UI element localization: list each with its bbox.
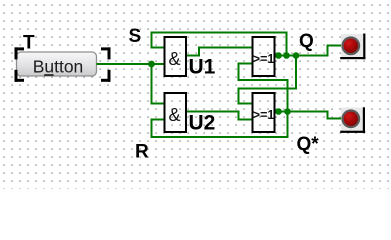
wire S net horizontal top: [151, 32, 288, 34]
wire U1 output jog up: [198, 47, 200, 57]
wire S net vertical right down to Q row: [286, 32, 288, 57]
and-gate U1: [165, 37, 216, 79]
wire S net into U1 upper input: [152, 47, 165, 49]
wire into OR1 lower input: [238, 63, 253, 65]
wire Q into LED1: [328, 45, 342, 47]
svg-text:S: S: [129, 26, 142, 47]
wire bottom rail R: [151, 136, 289, 138]
wire OR2 output Q* row: [275, 111, 329, 113]
selection marks around button: [15, 47, 111, 81]
junction Q* row feedback tap: [284, 108, 291, 115]
junction Q row feedback tap: [293, 52, 300, 59]
wire into OR2 upper input: [238, 103, 253, 105]
svg-text:U1: U1: [189, 56, 216, 79]
wire OR1 output Q row: [275, 55, 329, 57]
input button T: [17, 52, 97, 77]
junction Q row S tap: [283, 52, 290, 59]
junction Q* row pin: [275, 108, 282, 115]
svg-text:>=1: >=1: [253, 108, 275, 122]
svg-text:&: &: [168, 49, 180, 69]
svg-text:Q*: Q*: [297, 134, 320, 155]
wire Q feedback down to OR2 upper input: [238, 88, 240, 105]
svg-text:U2: U2: [189, 112, 216, 135]
wire bottom rail up to U2 lower input: [151, 119, 153, 139]
wire U1 output: [186, 55, 200, 57]
wire button to U1 lower input: [97, 63, 165, 65]
svg-text:R: R: [135, 142, 149, 163]
wire junction down to U2 upper input: [151, 64, 153, 104]
wire U2 output jog down: [238, 111, 240, 121]
wire U2 output: [186, 111, 240, 113]
or-gate lower: [253, 93, 275, 132]
svg-text:>=1: >=1: [253, 52, 275, 66]
LED Q*: [340, 107, 365, 133]
svg-text:T: T: [23, 33, 35, 54]
LED Q: [340, 34, 365, 60]
or-gate upper: [253, 37, 275, 76]
wire into U2 upper input: [151, 103, 165, 105]
wire Q* feedback horizontal upper: [238, 79, 289, 81]
wire Q feedback vertical down: [295, 56, 297, 90]
svg-text:&: &: [168, 105, 180, 125]
svg-text:Q: Q: [299, 31, 314, 52]
wire into U2 lower input: [151, 119, 165, 121]
wire Q jog up: [327, 45, 329, 57]
wire Q* jog down: [327, 111, 329, 120]
svg-text:Button: Button: [33, 57, 84, 77]
wire U1 output into OR1 upper input: [198, 47, 252, 49]
wire Q* into LED2: [328, 118, 342, 120]
wire S net vertical left: [151, 32, 153, 49]
junction Q row pin: [275, 52, 282, 59]
junction button net: [148, 61, 155, 68]
wire Q* feedback vertical: [287, 79, 289, 138]
wire Q feedback horizontal: [238, 88, 298, 90]
and-gate U2: [165, 93, 216, 135]
wire Q* feedback up to OR1 lower input: [238, 63, 240, 82]
wire U2 output into OR2 lower input: [238, 119, 253, 121]
